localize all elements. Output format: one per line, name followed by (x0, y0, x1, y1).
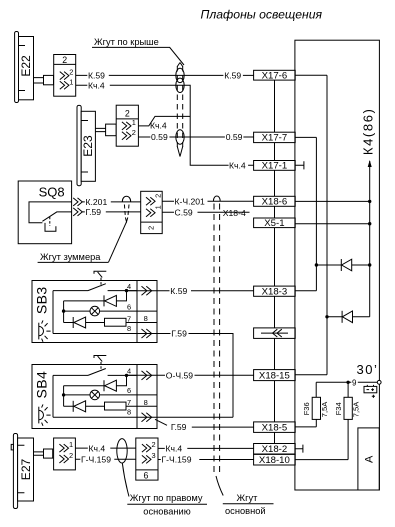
svg-text:X17-7: X17-7 (262, 133, 288, 144)
terminal 30 line (316, 362, 381, 387)
SB4 bottom rail pin 8 (53, 416, 157, 418)
svg-text:1: 1 (69, 440, 73, 449)
wire 0.59 E23 to X17-7 (138, 132, 253, 142)
svg-text:Е22: Е22 (19, 55, 33, 77)
SB3 switch contact (53, 282, 137, 334)
SB4 diode VD1 (64, 375, 127, 391)
svg-text:9: 9 (352, 379, 357, 388)
battery symbol (364, 385, 377, 398)
SB3 bottom rail pin 8 (53, 333, 157, 335)
svg-text:Г.59: Г.59 (171, 422, 187, 432)
wire Г.59 (82, 207, 140, 217)
svg-text:4: 4 (127, 282, 131, 291)
wire Кч.4 E23 joins vertical (138, 116, 190, 130)
plug stub E27 (34, 449, 53, 458)
svg-text:Жгут по крыше: Жгут по крыше (94, 37, 159, 47)
svg-text:Жгут: Жгут (237, 493, 259, 503)
svg-text:8: 8 (127, 324, 131, 333)
wire Кч.4 E22 down to X17-1 (76, 80, 254, 170)
roof harness dashed lines (176, 63, 184, 157)
SB3 pin8 chevron (142, 329, 152, 338)
svg-text:X18-6: X18-6 (262, 196, 288, 207)
svg-text:SB4: SB4 (33, 371, 49, 399)
SB4 actuator (94, 356, 106, 372)
switch SQ8 (18, 181, 71, 244)
svg-text:2: 2 (154, 194, 163, 198)
connector pad X18-5 (254, 422, 296, 433)
svg-text:6: 6 (144, 471, 149, 481)
module big box (295, 40, 380, 490)
wire К.201 (82, 197, 140, 207)
svg-text:К.59: К.59 (224, 70, 241, 80)
svg-text:7: 7 (127, 314, 131, 323)
SB4 lamp (62, 386, 157, 407)
svg-text:X18-2: X18-2 (262, 444, 288, 455)
svg-text:К4(86): К4(86) (361, 108, 376, 156)
svg-text:Г-Ч.159: Г-Ч.159 (81, 454, 111, 464)
SB3 diode VD1 (64, 291, 127, 307)
svg-text:С.59: С.59 (175, 208, 193, 218)
connector X zummer (141, 191, 163, 233)
svg-text:2: 2 (62, 55, 67, 65)
lamp E23 (77, 105, 95, 185)
main harness dashed lines (213, 196, 223, 495)
X18-2 stub (295, 445, 303, 453)
SB4 switch contact (53, 367, 137, 418)
svg-text:8: 8 (144, 398, 148, 407)
wire С.59 to X18-4 (162, 208, 249, 218)
connector pad X17-1 (254, 161, 296, 172)
svg-text:8: 8 (127, 408, 131, 417)
net from X17-6 down to X18-15 (295, 75, 329, 375)
svg-text:X5-1: X5-1 (264, 218, 284, 229)
connector pad X17-6 (254, 70, 296, 81)
connector pad X5-1 (254, 218, 296, 229)
fuse F34 (295, 382, 361, 459)
svg-text:Кч.4: Кч.4 (88, 80, 105, 90)
svg-text:К.201: К.201 (86, 197, 108, 207)
svg-text:4: 4 (127, 367, 131, 376)
SB4 pin8 wire joins vertical (157, 416, 233, 418)
connector X of E23 (116, 105, 138, 146)
wire К.59 SB3 to X18-3 (127, 286, 254, 296)
svg-text:Жгут по правому: Жгут по правому (130, 493, 203, 503)
connector pad X18-15 (254, 370, 296, 382)
SB4 pin4 chevron (142, 371, 152, 380)
svg-text:X17-1: X17-1 (262, 161, 288, 172)
wire К.59 E22 to X17-6 (76, 70, 254, 80)
connector X2 of E27 (136, 438, 158, 481)
connector pad X18-3 (254, 286, 296, 297)
X17-1 stub (295, 161, 304, 169)
connector X of E22 (54, 55, 76, 97)
svg-text:Г-Ч.159: Г-Ч.159 (162, 455, 192, 465)
svg-text:6: 6 (127, 386, 131, 395)
svg-text:1: 1 (132, 118, 136, 127)
svg-text:Г.59: Г.59 (171, 329, 187, 339)
svg-text:0.59: 0.59 (151, 132, 168, 142)
SB4 diode VD2 and resistor (64, 398, 157, 417)
connector pad X18-6 (254, 196, 296, 207)
svg-text:X18-15: X18-15 (259, 370, 290, 381)
svg-text:2: 2 (152, 440, 156, 449)
connector X1 of E27 (54, 438, 76, 470)
svg-text:К.59: К.59 (88, 70, 105, 80)
svg-text:X18-5: X18-5 (262, 422, 288, 433)
svg-text:7,5А: 7,5А (320, 402, 329, 417)
wire Г.59 SB3 down to SB4 (157, 329, 233, 418)
svg-text:X17-6: X17-6 (262, 70, 288, 81)
wire X5-1 to net (295, 223, 370, 225)
svg-text:2: 2 (146, 226, 155, 230)
svg-text:SB3: SB3 (33, 286, 49, 314)
plug stub E22 (34, 75, 54, 84)
wire X18-6 to net (295, 200, 370, 202)
svg-text:X18-10: X18-10 (259, 455, 290, 466)
svg-text:Плафоны освещения: Плафоны освещения (201, 8, 323, 22)
svg-text:2: 2 (125, 109, 130, 119)
svg-text:2: 2 (69, 68, 73, 77)
svg-text:Кч.4: Кч.4 (229, 160, 246, 170)
svg-text:1: 1 (154, 205, 163, 209)
wire Г.59 to X18-5 (192, 426, 254, 428)
svg-text:Х18-4: Х18-4 (223, 208, 246, 218)
right base harness loop (117, 439, 129, 497)
SQ8 output chevrons (73, 198, 82, 216)
svg-text:Е23: Е23 (81, 135, 95, 157)
net К4(86) vertical with arrow (361, 108, 376, 317)
svg-text:SQ8: SQ8 (39, 185, 65, 200)
plug stub E23 (95, 124, 116, 136)
svg-text:2: 2 (132, 128, 136, 137)
svg-text:6: 6 (127, 302, 131, 311)
relay block A (358, 428, 379, 490)
SB4 illumination symbol (39, 404, 51, 425)
net from X17-7 down to X18-3 (295, 137, 318, 290)
fuse F36 (295, 382, 329, 427)
svg-text:X18-3: X18-3 (262, 286, 288, 297)
inline connector symbol (254, 328, 296, 339)
svg-text:Е27: Е27 (19, 459, 33, 481)
svg-text:3: 3 (152, 451, 156, 460)
SB3 pin4 chevron (142, 286, 152, 295)
svg-text:Жгут зуммера: Жгут зуммера (40, 252, 101, 262)
svg-text:7,5А: 7,5А (352, 402, 361, 417)
switch SB4 (32, 365, 157, 429)
connector pad X17-7 (254, 132, 296, 143)
switch SB3 (32, 281, 157, 343)
wires E27 to second connector (75, 443, 135, 464)
svg-text:0.59: 0.59 (226, 132, 243, 142)
SB3 lamp (62, 301, 157, 323)
label roof harness (92, 37, 184, 65)
svg-text:7: 7 (127, 398, 131, 407)
label Г.59 leader (155, 419, 187, 432)
svg-text:30’: 30’ (357, 362, 379, 377)
svg-text:F36: F36 (302, 402, 311, 415)
wire О-Ч.59 SB4 to X18-15 (127, 371, 254, 381)
svg-text:К.59: К.59 (170, 286, 187, 296)
diode VD4 row (327, 311, 370, 323)
svg-text:основанию: основанию (143, 506, 190, 516)
svg-text:F34: F34 (334, 402, 343, 415)
lamp E22 (15, 32, 34, 103)
zummer harness (109, 196, 131, 262)
label zummer harness (38, 252, 109, 262)
svg-text:2: 2 (69, 451, 73, 460)
svg-text:1: 1 (69, 77, 73, 86)
svg-text:Кч.4: Кч.4 (89, 443, 106, 453)
svg-text:Кч.4: Кч.4 (166, 444, 183, 454)
svg-text:О-Ч.59: О-Ч.59 (166, 371, 193, 381)
svg-text:К-Ч.201: К-Ч.201 (175, 196, 206, 206)
wires to X18-2 X18-10 (158, 444, 254, 465)
label right base harness (127, 493, 207, 517)
connector pad X18-10 (254, 454, 296, 466)
diode VD3 row (316, 259, 371, 271)
SB3 illumination symbol (39, 320, 51, 341)
svg-text:основной: основной (225, 506, 266, 516)
lamp E27 (11, 434, 33, 509)
column chain line (274, 80, 276, 443)
connector pad X18-2 (254, 444, 296, 455)
SB3 diode VD2 and resistor (64, 314, 157, 333)
wire К-Ч.201 to X18-6 (162, 196, 253, 206)
label main harness (223, 493, 274, 516)
svg-text:8: 8 (144, 314, 148, 323)
svg-text:Кч.4: Кч.4 (150, 121, 167, 131)
SB4 pin8 chevron (142, 413, 152, 422)
svg-text:Г.59: Г.59 (86, 207, 102, 217)
SB3 actuator (94, 271, 106, 286)
svg-text:А: А (363, 455, 375, 463)
